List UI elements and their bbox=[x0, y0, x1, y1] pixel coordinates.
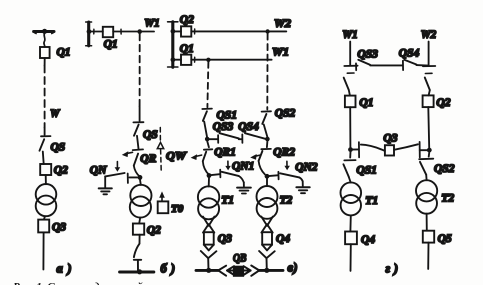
busbar (bottom, scheme b) bbox=[120, 271, 154, 274]
svg-text:QW: QW bbox=[166, 151, 187, 163]
svg-text:T0: T0 bbox=[171, 203, 184, 215]
svg-text:QS3: QS3 bbox=[213, 121, 234, 133]
wire (dashed right drop) bbox=[266, 34, 268, 110]
svg-text:QB: QB bbox=[233, 253, 247, 265]
svg-text:Q4: Q4 bbox=[361, 234, 375, 246]
bus-tie breaker QB (withdrawable, horizontal) bbox=[218, 266, 259, 277]
cable terminal (curved drop to bus) bbox=[134, 244, 140, 257]
svg-text:T2: T2 bbox=[280, 195, 293, 207]
svg-text:QN1: QN1 bbox=[232, 161, 254, 173]
wire W1 drop bbox=[349, 42, 351, 66]
terminal tick right bbox=[423, 65, 435, 67]
node on busbar bbox=[42, 29, 47, 34]
busbar (vertical, scheme b) bbox=[86, 22, 92, 46]
ground (QN1) bbox=[237, 182, 251, 193]
circuit breaker Q2 (scheme b) bbox=[133, 224, 144, 235]
circuit breaker Q4 (withdrawable) bbox=[262, 232, 272, 244]
svg-text:Q1: Q1 bbox=[57, 47, 71, 59]
svg-text:W1: W1 bbox=[272, 47, 289, 59]
wire bbox=[350, 244, 352, 271]
node (transformer junction, scheme b) bbox=[138, 175, 143, 180]
wire bbox=[266, 179, 268, 186]
svg-text:W2: W2 bbox=[274, 18, 291, 30]
wire W2 drop bbox=[428, 42, 430, 66]
svg-text:QR: QR bbox=[140, 153, 156, 165]
short-circuiter QN2 branch bbox=[267, 174, 277, 177]
node W1 junction bbox=[137, 29, 142, 34]
busbar (scheme a source) bbox=[34, 32, 54, 34]
wire bbox=[349, 107, 351, 147]
disconnector (right branch, below tie) bbox=[425, 72, 432, 74]
busbar (vertical, scheme v) bbox=[168, 22, 178, 67]
svg-text:QS2: QS2 bbox=[434, 163, 455, 175]
svg-text:T1: T1 bbox=[221, 195, 234, 207]
disconnector QS1 (scheme g) bbox=[349, 152, 351, 158]
transformer T1 (scheme v) bbox=[198, 186, 219, 207]
separator QR bbox=[133, 148, 143, 151]
separator QR2 bbox=[266, 141, 269, 147]
arrow (QR1 opening direction) bbox=[191, 154, 202, 160]
wire bbox=[349, 215, 351, 231]
plug contact (arrow + fork below Q4) bbox=[259, 245, 275, 270]
busbar (bottom right, scheme v) bbox=[259, 269, 283, 272]
node (left tap on W1) bbox=[206, 58, 210, 62]
svg-text:Q3: Q3 bbox=[383, 132, 397, 144]
node (tie right, scheme g) bbox=[427, 148, 432, 153]
svg-text:Q5: Q5 bbox=[438, 233, 452, 245]
node (T1 junction) bbox=[207, 173, 212, 178]
arrow (QN closing direction) bbox=[115, 162, 121, 172]
circuit breaker Q1 bbox=[103, 27, 113, 37]
short-circuiter QN branch bbox=[129, 176, 140, 178]
wire bbox=[44, 216, 45, 219]
svg-text:Q2: Q2 bbox=[436, 97, 450, 109]
circuit breaker Q2 (scheme g) bbox=[423, 95, 434, 107]
svg-text:QR2: QR2 bbox=[273, 147, 295, 159]
svg-text:Q4: Q4 bbox=[276, 233, 290, 245]
wire bbox=[139, 218, 140, 224]
svg-text:Q2: Q2 bbox=[147, 225, 161, 237]
svg-text:Q3: Q3 bbox=[52, 222, 66, 234]
wire bbox=[89, 31, 103, 33]
terminal tick bbox=[93, 29, 95, 34]
node (tie right) bbox=[265, 137, 270, 142]
circuit breaker Q3 (withdrawable) bbox=[204, 232, 214, 244]
node on busbar bbox=[87, 29, 92, 34]
disconnector QS (scheme b) bbox=[134, 125, 139, 136]
transformer (scheme b) bbox=[130, 185, 151, 206]
ground (QN) bbox=[99, 176, 112, 194]
wire (dashed line down) bbox=[139, 34, 141, 107]
circuit breaker Q1 (scheme g) bbox=[345, 96, 356, 108]
wire bbox=[42, 233, 44, 270]
ground (QN2) bbox=[296, 181, 309, 193]
svg-text:QS1: QS1 bbox=[217, 110, 237, 122]
terminal tick bbox=[120, 29, 122, 34]
svg-text:QS1: QS1 bbox=[356, 165, 376, 177]
wire bbox=[137, 136, 139, 149]
node bbox=[171, 57, 176, 62]
circuit breaker Q1 bbox=[40, 47, 50, 58]
svg-text:QN2: QN2 bbox=[295, 162, 318, 174]
svg-text:г): г) bbox=[386, 262, 399, 276]
auxiliary transformer T0 (plug arrow + box) bbox=[158, 191, 169, 213]
plug contact (fork + arrow above Q4) bbox=[261, 217, 272, 233]
arrow (QN2 closing direction) bbox=[284, 161, 290, 170]
tie with disconnectors QS3 QS4 (scheme g) bbox=[355, 63, 357, 70]
separator QR1 bbox=[207, 141, 209, 147]
svg-text:W2: W2 bbox=[421, 29, 437, 41]
svg-text:б): б) bbox=[161, 262, 176, 276]
wire bbox=[427, 243, 429, 269]
circuit breaker Q4 (scheme g) bbox=[345, 232, 357, 245]
svg-text:Q2: Q2 bbox=[180, 14, 194, 26]
circuit breaker Q3 bbox=[38, 220, 49, 233]
node (T2 junction) bbox=[265, 174, 270, 179]
svg-text:QR1: QR1 bbox=[214, 147, 236, 159]
circuit breaker Q2 (scheme v) bbox=[181, 26, 191, 36]
wire W2 line bbox=[191, 30, 286, 32]
svg-text:QS: QS bbox=[51, 142, 66, 154]
svg-text:QN: QN bbox=[90, 165, 107, 177]
svg-text:Q2: Q2 bbox=[54, 165, 68, 177]
wire W1 feeder bbox=[173, 59, 181, 61]
disconnector QS2 bbox=[262, 114, 266, 124]
transformer T2 (scheme v) bbox=[257, 186, 278, 207]
svg-text:QS2: QS2 bbox=[275, 108, 296, 120]
line W (dashed feeder) bbox=[44, 66, 46, 128]
wire bbox=[42, 152, 45, 165]
terminal tick bbox=[194, 29, 196, 34]
wire bbox=[139, 235, 141, 244]
svg-text:QS3: QS3 bbox=[357, 49, 378, 61]
wire bbox=[139, 180, 142, 185]
disconnector (left branch, below tie) bbox=[347, 72, 354, 74]
wire bbox=[426, 214, 428, 231]
busbar (bottom left, scheme v) bbox=[196, 269, 218, 272]
svg-text:в): в) bbox=[288, 261, 298, 275]
svg-text:T2: T2 bbox=[441, 193, 454, 205]
arrow (QN1 closing direction) bbox=[225, 161, 231, 170]
tie wire with disconnectors QS3 QS4 bbox=[207, 138, 218, 140]
circuit breaker Q5 (scheme g) bbox=[423, 231, 434, 243]
circuit breaker Q2 bbox=[40, 164, 51, 175]
transformer T2 (scheme g) bbox=[416, 180, 437, 201]
svg-text:QS4: QS4 bbox=[238, 121, 259, 133]
wire bbox=[45, 175, 47, 184]
disconnector QS1 bbox=[203, 111, 207, 121]
transformer T1 (scheme g) bbox=[341, 182, 362, 203]
svg-text:Q3: Q3 bbox=[218, 233, 232, 245]
linkage (dashed with triangle) to QW bbox=[157, 128, 163, 171]
svg-text:T1: T1 bbox=[365, 195, 378, 207]
svg-text:Рис. 1. Схемы подстанций: Рис. 1. Схемы подстанций bbox=[13, 281, 143, 285]
bus-tie with breaker Q3 (scheme g) bbox=[351, 148, 359, 150]
node bbox=[171, 29, 176, 34]
svg-text:QS: QS bbox=[143, 129, 158, 141]
node (tie left) bbox=[205, 137, 210, 142]
arrow (QR2 opening direction) bbox=[250, 154, 260, 160]
svg-text:Q1: Q1 bbox=[180, 43, 194, 55]
svg-text:Q1: Q1 bbox=[359, 97, 373, 109]
plug contact (fork + arrow above Q3) bbox=[203, 217, 214, 233]
terminal tick left bbox=[344, 65, 357, 67]
wire W1 line bbox=[191, 59, 271, 61]
svg-text:W: W bbox=[50, 106, 61, 120]
transformer (scheme a) bbox=[36, 184, 57, 205]
wire bbox=[427, 107, 430, 148]
svg-text:W1: W1 bbox=[144, 18, 160, 30]
svg-text:Q1: Q1 bbox=[104, 39, 118, 51]
wire to junction bbox=[113, 31, 154, 33]
short-circuiter QN1 branch bbox=[209, 174, 220, 175]
circuit breaker Q1 (scheme v) bbox=[181, 55, 191, 65]
svg-text:QS4: QS4 bbox=[399, 48, 420, 60]
node (right tap on W2) bbox=[265, 29, 269, 33]
arrow (QR opening direction) bbox=[122, 151, 133, 157]
plug contact (arrow + fork below Q3) bbox=[201, 245, 217, 270]
svg-text:W1: W1 bbox=[342, 29, 358, 41]
wire (dashed left drop) bbox=[207, 62, 208, 107]
disconnector QS2 (scheme g) bbox=[428, 152, 431, 156]
disconnector QS bbox=[40, 139, 45, 151]
terminal tick bbox=[194, 57, 196, 62]
node (tie left, scheme g) bbox=[348, 147, 353, 152]
wire (wavy drop from busbar) bbox=[44, 33, 45, 47]
faint cropped caption at page bottom bbox=[13, 281, 143, 285]
wire W2 feeder bbox=[173, 30, 181, 32]
svg-text:а): а) bbox=[57, 262, 72, 276]
wire bbox=[44, 58, 46, 66]
wire bbox=[208, 178, 210, 187]
